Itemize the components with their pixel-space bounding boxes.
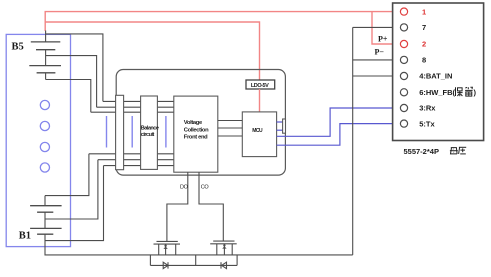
continuation marks channels — [107, 116, 166, 148]
svg-text:Collection: Collection — [184, 127, 209, 133]
wire diode branch middle — [195, 255, 197, 266]
battery B5 inter-cell wire — [45, 50, 47, 66]
svg-text:CO: CO — [201, 184, 210, 190]
svg-text:3:Rx: 3:Rx — [419, 104, 436, 113]
wire to pin 4 BAT_IN — [353, 75, 401, 77]
battery B5 cell1 long plate — [31, 41, 61, 43]
glyph liu — [465, 87, 473, 96]
svg-text:DO: DO — [180, 184, 189, 190]
wire B5- tap — [46, 80, 91, 113]
svg-text:P−: P− — [375, 48, 385, 57]
LDO-5V block — [246, 80, 275, 89]
pin 8 circle — [400, 56, 407, 63]
voltage collection front end block — [174, 96, 218, 172]
svg-text:B5: B5 — [12, 42, 24, 53]
wire to pin 7 — [353, 26, 401, 28]
svg-text:6:HW_FB(: 6:HW_FB( — [419, 88, 455, 97]
wire B1- sense tap — [45, 166, 104, 241]
connector strip on module left edge — [116, 95, 124, 169]
svg-text:circuit: circuit — [141, 132, 155, 138]
battery B5 top wire — [45, 31, 47, 42]
glyph zuo — [459, 147, 467, 154]
diode D1 — [163, 262, 168, 268]
svg-text:2: 2 — [422, 40, 426, 49]
connector pin circles — [400, 8, 407, 127]
mosfet Q1 discharge — [154, 241, 181, 255]
svg-text:8: 8 — [422, 56, 426, 65]
mosfet Q2 charge — [210, 241, 237, 255]
glyph mu — [450, 148, 458, 154]
svg-text:MCU: MCU — [252, 128, 263, 134]
svg-text:4:BAT_IN: 4:BAT_IN — [419, 72, 452, 81]
battery B1 cell1 short plate — [37, 211, 53, 213]
battery B5 cell1 short plate — [36, 49, 55, 51]
wire P- to pin 8 — [353, 59, 401, 61]
red wire pin 2 branch P+ — [372, 12, 401, 44]
BMS module outline — [116, 70, 285, 176]
wire cell sense bundle bottom — [89, 154, 174, 166]
battery B1 cell2 long plate — [30, 227, 61, 229]
pin labels — [419, 7, 476, 128]
svg-text:P+: P+ — [378, 35, 388, 44]
pin 1 circle — [400, 8, 407, 15]
diode D2 — [221, 262, 227, 268]
svg-text:Balance: Balance — [141, 125, 159, 131]
battery B5 cell2 long plate — [29, 65, 61, 67]
red wire LDO to MCU — [259, 89, 261, 112]
blue wire MCU Rx to pin 3 — [277, 108, 401, 136]
continuation dots battery cells — [40, 100, 49, 172]
pin 6 circle — [400, 89, 407, 96]
red wire to LDO-5V and MCU — [45, 22, 259, 81]
battery B1 top wire — [44, 196, 46, 206]
wire B1+ sense tap — [45, 154, 89, 196]
pin 2 circle — [400, 40, 407, 47]
battery B5 bottom wire — [45, 73, 47, 80]
svg-text:B1: B1 — [19, 231, 31, 242]
wire diode branch right — [236, 255, 238, 266]
connector J1 5557-2*4P outline — [393, 3, 484, 141]
wire DO gate drive — [167, 172, 188, 241]
edge connector small box — [283, 119, 286, 133]
battery B1 cell1 long plate — [30, 205, 61, 207]
pin 4 circle — [400, 72, 407, 79]
svg-text:Voltage: Voltage — [184, 120, 203, 126]
net B5+ red wire to pin 1 — [45, 12, 400, 31]
wire diode branch left — [149, 255, 151, 266]
wire cell sense bundle top — [91, 101, 174, 112]
wire P- riser to connector — [352, 27, 354, 255]
battery B1 inter-cell wire — [44, 212, 46, 228]
battery B1 cell2 short plate — [37, 233, 53, 235]
wire B5+ sense tap — [46, 34, 103, 102]
svg-text:5557-2*4P: 5557-2*4P — [404, 147, 439, 156]
battery pack outline (blue box) — [6, 34, 70, 246]
svg-text:5:Tx: 5:Tx — [419, 120, 435, 129]
pin 5 circle — [400, 120, 407, 127]
svg-text:7: 7 — [422, 23, 426, 32]
svg-text:LDO-5V: LDO-5V — [251, 83, 269, 89]
battery B5 cell2 short plate — [37, 72, 56, 74]
svg-text:1: 1 — [422, 7, 426, 16]
pin 7 circle — [400, 24, 407, 31]
stub pin 6 — [397, 91, 400, 93]
svg-text:Front end: Front end — [184, 134, 208, 140]
wire B1- power rail — [45, 234, 353, 255]
glyph bao — [456, 87, 463, 96]
wire diode row — [150, 264, 237, 266]
balance circuit block — [141, 96, 158, 169]
wire B5 mid tap — [46, 56, 97, 108]
pin 3 circle — [400, 104, 407, 111]
wire B1 mid tap — [45, 160, 98, 219]
wires front-end to MCU — [218, 121, 243, 137]
blue wire MCU Tx to pin 5 — [277, 124, 401, 146]
wire CO gate drive — [199, 172, 223, 241]
MCU block U1 — [242, 112, 276, 157]
MCU stubs to edge connector — [277, 122, 283, 130]
